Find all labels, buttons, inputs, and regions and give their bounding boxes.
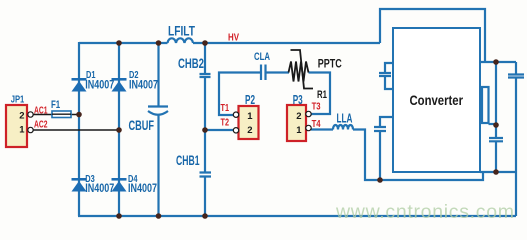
inductor LFILT coil <box>168 38 194 43</box>
capacitor C-right-mid plates <box>489 138 503 141</box>
svg-text:AC1: AC1 <box>34 106 48 117</box>
connector JP1 <box>6 105 27 147</box>
node right mid <box>493 122 499 128</box>
pin circle P2-1 <box>233 112 238 117</box>
wire converter top out <box>480 61 516 63</box>
diode D1 <box>72 78 87 92</box>
capacitor CLA plates <box>261 65 266 81</box>
labels blue <box>11 24 353 196</box>
capacitor CBUF curved plate <box>148 111 168 115</box>
wire right mid vertical upper <box>495 62 497 138</box>
wire bottom rail <box>78 215 516 217</box>
svg-text:IN4007: IN4007 <box>128 183 157 195</box>
svg-text:CHB1: CHB1 <box>176 153 200 168</box>
wire LLA to secondary bottom <box>353 130 483 181</box>
svg-text:P3: P3 <box>293 93 303 107</box>
wire left rail (D1/D3) <box>78 42 80 216</box>
svg-text:T1: T1 <box>221 102 230 114</box>
wire outer loop riser to converter <box>380 9 485 62</box>
labels red <box>34 33 321 131</box>
diode D2 <box>112 78 127 92</box>
svg-text:P2: P2 <box>245 93 255 107</box>
inductor LLA coil <box>333 125 353 130</box>
diode D3 <box>72 178 87 192</box>
svg-text:F1: F1 <box>51 99 60 111</box>
node secondary bottom / cap <box>377 177 383 183</box>
svg-text:LLA: LLA <box>337 110 353 125</box>
svg-text:www.cntronics.com: www.cntronics.com <box>335 201 514 223</box>
node converter top right <box>493 59 499 65</box>
wire small box to node <box>489 123 495 125</box>
wire rail 3 upper (CBUF top) <box>157 43 159 106</box>
wire AC1 black <box>34 114 80 116</box>
svg-text:PPTC: PPTC <box>318 56 342 70</box>
wire T4 to LLA <box>311 128 333 130</box>
converter U1 box <box>393 28 480 172</box>
diode D4 <box>112 178 127 192</box>
svg-text:2: 2 <box>247 125 252 136</box>
fuse F1 <box>52 111 71 118</box>
svg-text:T4: T4 <box>312 118 321 130</box>
node AC1 / rail1 <box>76 112 82 118</box>
svg-text:1: 1 <box>247 111 253 122</box>
svg-text:CLA: CLA <box>254 51 270 63</box>
capacitor C-left-top of converter plates <box>379 73 391 76</box>
component small box right of converter <box>482 87 489 123</box>
svg-text:T2: T2 <box>221 117 230 129</box>
wire converter bottom out <box>480 171 516 173</box>
wire stub converter to small box <box>480 89 482 116</box>
node top rail / rail2 <box>116 40 122 46</box>
wire T2 tap <box>205 129 233 131</box>
svg-text:Converter: Converter <box>410 92 464 108</box>
node HV / rail4 <box>202 40 208 46</box>
capacitor CHB2 plates <box>200 74 211 77</box>
svg-text:AC2: AC2 <box>34 119 48 130</box>
svg-text:2: 2 <box>19 111 24 122</box>
pin circle P3-T4 <box>306 125 311 130</box>
pin circle JP1-2 <box>28 112 33 117</box>
pin circle P2-2 <box>233 128 238 133</box>
svg-text:CHB2: CHB2 <box>178 56 204 71</box>
node bottom rail2 <box>116 213 122 219</box>
svg-text:IN4007: IN4007 <box>85 79 114 91</box>
svg-text:CBUF: CBUF <box>129 118 155 133</box>
svg-text:1: 1 <box>19 125 25 136</box>
node right bottom <box>493 169 499 175</box>
svg-text:HV: HV <box>228 33 239 44</box>
svg-text:IN4007: IN4007 <box>129 79 158 91</box>
svg-text:2: 2 <box>296 111 301 122</box>
svg-text:R1: R1 <box>317 89 327 101</box>
capacitor C-right-top plates <box>508 75 524 78</box>
wire far right vertical lower <box>515 78 517 216</box>
node T2 / rail4 <box>202 127 208 133</box>
wire T1 to CLA <box>219 73 260 116</box>
PPTC strike line <box>291 50 314 89</box>
wire top HV rail <box>79 42 380 44</box>
wire rail 3 lower (CBUF bottom) <box>157 115 159 216</box>
node AC2 / rail2 <box>116 127 122 133</box>
pin circle P3-T3 <box>306 111 311 116</box>
svg-text:LFILT: LFILT <box>168 24 196 39</box>
node top rail / rail3 <box>156 40 162 46</box>
svg-text:IN4007: IN4007 <box>85 183 114 195</box>
capacitor CBUF top plate <box>148 105 168 107</box>
svg-text:1: 1 <box>296 125 302 136</box>
connector P3 <box>287 105 306 141</box>
node bottom rail4 <box>202 213 208 219</box>
svg-text:JP1: JP1 <box>11 95 25 106</box>
wire CLA to PPTC <box>267 71 290 73</box>
capacitor C-left-top leads <box>385 63 393 89</box>
capacitor C-left-bottom leads <box>380 117 393 180</box>
connector P2 <box>239 106 259 139</box>
wire AC2 black <box>34 129 120 131</box>
capacitor CHB1 plates <box>200 173 212 177</box>
wire rail 4 (CHB2/CHB1) <box>204 43 206 216</box>
wire PPTC to T3 <box>309 73 331 115</box>
wire rail 2 (D2/D4) <box>118 43 120 216</box>
wire far right vertical upper <box>515 62 517 74</box>
wire right mid vertical lower <box>495 142 497 173</box>
labels black <box>317 56 342 101</box>
svg-text:T3: T3 <box>312 101 321 113</box>
node bottom rail3 <box>156 213 162 219</box>
capacitor C-left-bottom plates <box>374 127 386 131</box>
pin circle JP1-1 <box>28 127 33 132</box>
resistor R1 PPTC zigzag <box>289 62 309 82</box>
